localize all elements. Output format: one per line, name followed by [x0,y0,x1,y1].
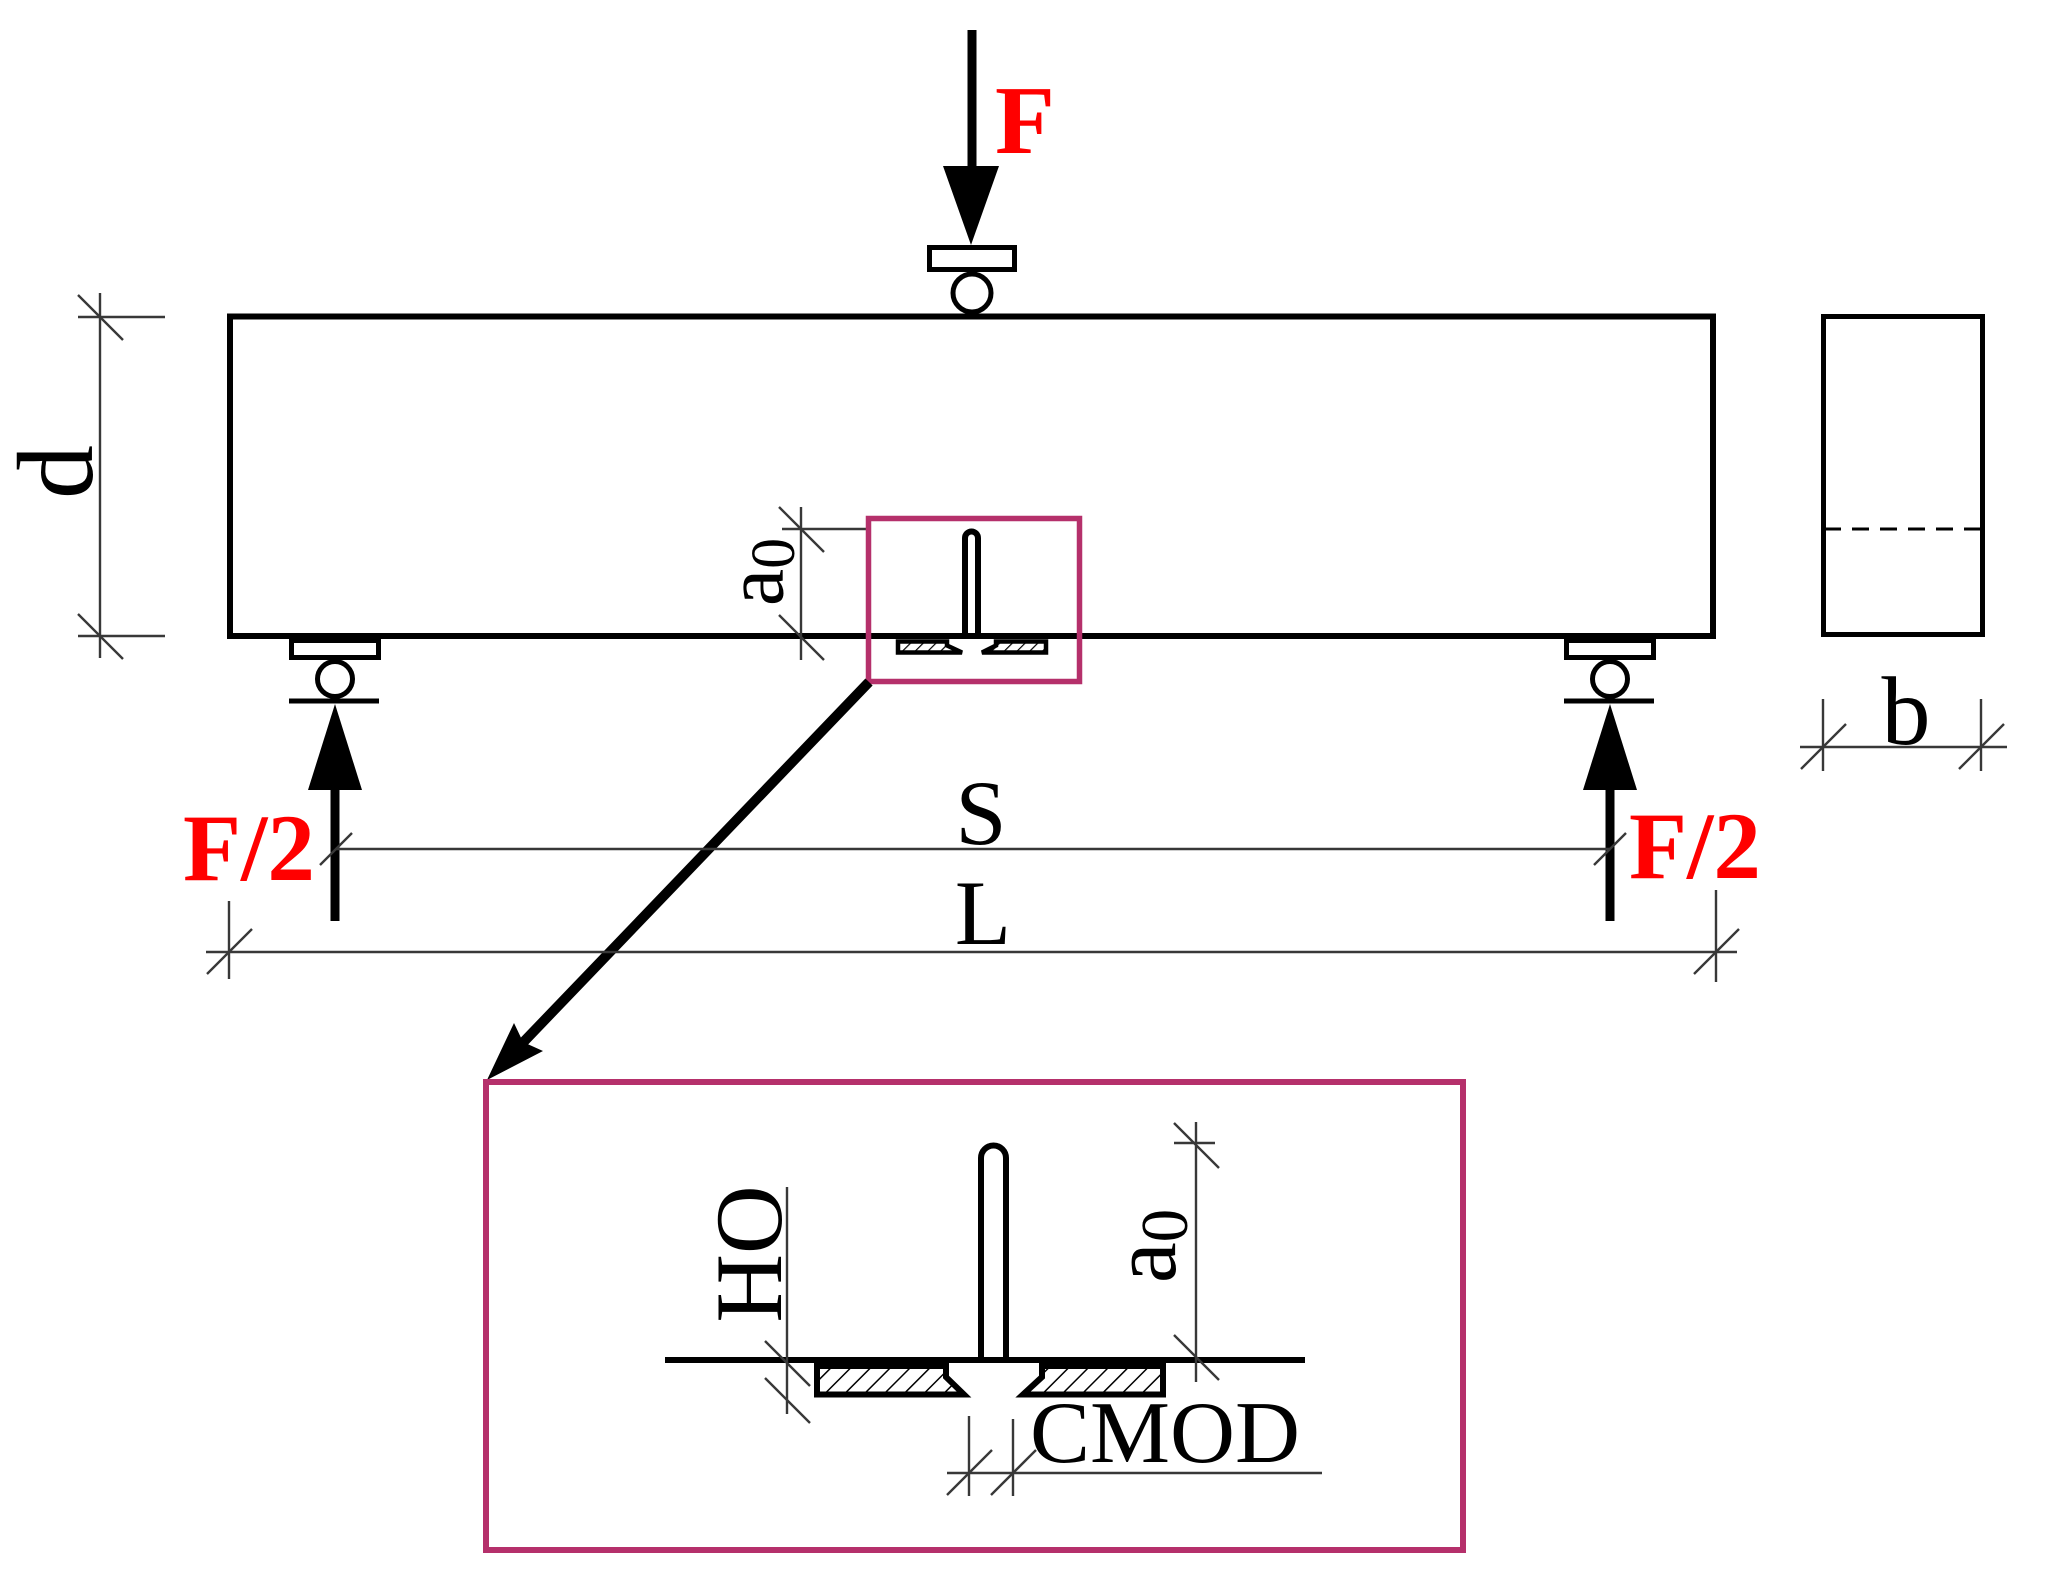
right support ground line [1564,699,1654,704]
left reaction arrow F/2 [308,704,362,790]
dimension CMOD: right tick [991,1450,1036,1495]
beam (front view) [230,317,1713,637]
label a0 detail (rotated) [1093,1209,1202,1283]
loading plate [930,248,1015,270]
svg-text:F/2: F/2 [1629,793,1761,899]
left support plate [292,641,379,658]
dimension S: left tick [320,833,352,865]
svg-text:b: b [1882,658,1931,766]
cross-section rectangle [1824,317,1983,635]
zoom leader arrow [512,682,869,1054]
svg-text:S: S [955,762,1006,864]
dimension a0 (small): top extension [782,528,867,530]
dimension S: line [336,848,1610,850]
dimension d: bottom extension line [78,635,165,637]
dimension HO: vertical line [786,1187,788,1414]
dimension a0 (detail): bottom tick [1174,1335,1219,1380]
dimension b: left extension [1822,699,1824,771]
dimension CMOD: right extension [1012,1419,1014,1496]
svg-text:F: F [995,67,1055,175]
dimension CMOD: line [947,1472,1322,1474]
dimension b: right tick [1959,724,2004,769]
dimension HO: top tick [765,1341,810,1386]
left support roller [318,662,353,697]
notch in beam [965,532,978,638]
right knife edge (small) [982,642,1046,653]
dimension b: line [1800,746,2007,748]
left knife edge (small) [898,642,962,653]
dimension a0 (small): bottom tick [779,615,824,660]
dimension d: bottom tick [78,614,123,659]
dimension L: left extension [228,901,230,979]
dimension d: vertical line [99,293,101,658]
right support roller [1593,662,1628,697]
right reaction arrow F/2 [1583,704,1637,790]
dimension L: left tick [207,929,252,974]
cross-section dashed line [1824,528,1982,531]
svg-text:F/2: F/2 [183,795,315,901]
svg-text:L: L [955,862,1011,964]
right support plate [1567,641,1654,658]
force arrow F [968,30,977,175]
dimension a0 (small): vertical line [800,507,802,660]
dimension a0 (detail): vertical line [1195,1122,1197,1382]
dimension L: right extension [1715,890,1717,982]
dimension CMOD: left extension [968,1416,970,1496]
svg-text:HO: HO [696,1185,802,1322]
detail left knife edge [817,1366,964,1395]
detail right knife edge [1023,1366,1163,1395]
dimension a0 (detail): top extension [1174,1142,1215,1144]
zoom source box (pink) [869,519,1080,682]
svg-text:CMOD: CMOD [1030,1385,1300,1482]
svg-text:d: d [0,445,116,499]
dimension CMOD: left tick [947,1450,992,1495]
dimension L: line [206,951,1737,953]
detail beam bottom line [665,1357,1305,1363]
dimension b: right extension [1980,699,1982,771]
label a0 small (rotated) [708,538,808,606]
dimension d: top extension line [78,316,165,318]
detail notch [981,1146,1006,1361]
dimension S: right tick [1594,833,1626,865]
dimension d: top tick [78,295,123,340]
dimension a0 (small): top tick [779,507,824,552]
left support ground line [289,699,379,704]
dimension a0 (detail): top tick [1174,1123,1219,1168]
dimension b: left tick [1801,724,1846,769]
dimension HO: bottom tick [765,1378,810,1423]
dimension L: right tick [1694,929,1739,974]
loading roller [953,274,991,312]
detail box (pink) [486,1082,1463,1550]
